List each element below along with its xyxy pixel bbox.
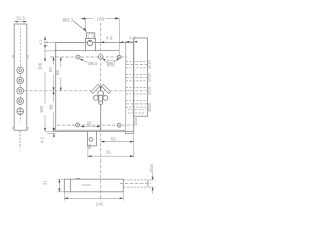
svg-text:106: 106 [37, 62, 42, 70]
31.5 arrows [14, 21, 17, 23]
svg-text:92: 92 [48, 67, 53, 73]
follower box [86, 38, 96, 51]
hole 1 [17, 67, 24, 74]
arrowheads [14, 17, 153, 199]
Ø18 arrows [152, 177, 154, 180]
dashed hidden lines [20, 23, 134, 160]
bolt 3 [126, 88, 149, 94]
bottom view faceplate line [69, 179, 71, 192]
4.0 arrows [126, 41, 129, 43]
63 arrows [101, 141, 105, 143]
dim 92 line [53, 57, 55, 131]
svg-text:85: 85 [55, 70, 60, 76]
left column arrows [44, 37, 46, 40]
tab hole dashed circle [88, 33, 93, 38]
leader 8.3 arrow [83, 28, 87, 32]
hole 3 [17, 88, 24, 95]
svg-text:180: 180 [39, 105, 44, 113]
follower heart hole [87, 40, 92, 45]
left dim column main line [44, 37, 56, 132]
4.2 bottom arrows [53, 128, 55, 131]
svg-text:Ø6.5: Ø6.5 [88, 61, 98, 66]
keyhole stem line [100, 105, 102, 132]
bottom view rect [64, 179, 123, 192]
faceplate circles [17, 67, 24, 115]
faceplate side nubs [13, 56, 28, 130]
Ø8 leader [107, 60, 114, 66]
dim 20 line [80, 126, 100, 128]
dim 100 line [81, 18, 119, 54]
svg-text:4.2: 4.2 [38, 39, 43, 45]
lock body outline [56, 42, 134, 131]
svg-text:100: 100 [96, 16, 104, 21]
dim 85 line [60, 57, 62, 91]
dim 91 line [88, 147, 134, 159]
bottom view bolt dashed [101, 160, 151, 201]
plate centerline [19, 28, 21, 123]
hole 2 [17, 77, 24, 84]
svg-text:20: 20 [86, 121, 92, 126]
dim 63 line [101, 135, 134, 158]
hole 8 center [98, 55, 102, 59]
deadbolts (dashed) [126, 61, 149, 113]
svg-text:Ø14: Ø14 [133, 117, 138, 126]
bolt 1 [126, 61, 149, 67]
svg-text:91: 91 [106, 150, 112, 155]
hole 6.5 right [117, 55, 121, 59]
Ø8.3 leader line [73, 21, 86, 31]
svg-text:Ø18: Ø18 [147, 103, 152, 112]
bolt 2 [126, 75, 149, 81]
hole 6.5 left [76, 55, 80, 59]
service latch [128, 110, 146, 113]
hole 5 hatched [17, 108, 24, 115]
leader to right hole [114, 59, 118, 62]
svg-text:4.2: 4.2 [39, 136, 44, 143]
bolt housing [134, 38, 148, 116]
bottom view bolt end cap [147, 180, 149, 187]
bottom tab [88, 131, 97, 146]
hole 4 [17, 98, 24, 105]
Ø6.5 leader [80, 59, 88, 63]
svg-text:Ø18: Ø18 [149, 164, 154, 173]
keyhole top notch [100, 87, 102, 91]
plate bottom strip [19, 131, 21, 146]
dim 4.0 lines [126, 41, 138, 43]
svg-text:Ø8.3: Ø8.3 [63, 18, 74, 24]
142 arrows [64, 197, 68, 199]
bottom view top lip [76, 177, 80, 179]
screw holes centerline [51, 56, 128, 58]
body bottom step [126, 131, 134, 133]
keyhole crown wing right [102, 84, 111, 93]
svg-text:4.9: 4.9 [106, 36, 113, 41]
svg-text:Ø18: Ø18 [146, 86, 151, 95]
bottom fixing holes [76, 123, 122, 127]
svg-text:Ø8: Ø8 [108, 61, 114, 66]
dim 142 [64, 192, 123, 200]
dim Ø18 bottom view [149, 173, 155, 194]
svg-text:63: 63 [111, 137, 117, 142]
svg-text:4.0: 4.0 [129, 36, 136, 41]
bottom fixing holes centerline [57, 124, 133, 126]
top tab [86, 33, 95, 39]
body inner lid line [54, 49, 119, 51]
dim 31 bottom view [58, 179, 65, 192]
svg-text:Ø18: Ø18 [146, 60, 151, 69]
svg-text:31: 31 [43, 180, 48, 185]
svg-text:86: 86 [49, 104, 54, 110]
20 arrows [80, 126, 84, 128]
faceplate [14, 24, 27, 130]
100 arrows [81, 18, 85, 20]
screw holes row [76, 55, 121, 60]
bolt 4 [126, 101, 149, 107]
keyhole crown wing left [91, 84, 100, 93]
svg-text:Ø5: Ø5 [88, 144, 92, 149]
svg-text:Ø18: Ø18 [146, 73, 151, 82]
keyhole [94, 91, 108, 105]
svg-text:2.4: 2.4 [44, 40, 49, 46]
inner plate edge [125, 42, 127, 130]
main vertical centerline [100, 23, 102, 160]
31 arrows [58, 179, 60, 182]
dim 4.2 bottom line [45, 128, 56, 138]
keyhole horizontal centerline [24, 90, 134, 92]
svg-text:31.5: 31.5 [16, 16, 25, 21]
bottom tab hole [89, 138, 93, 142]
svg-text:51003: 51003 [82, 183, 91, 187]
dim 4.9 line [101, 41, 124, 43]
4.9 arrows [101, 41, 105, 43]
dim 31.5 line [14, 21, 26, 23]
svg-text:142: 142 [96, 202, 104, 207]
91 arrows [88, 155, 92, 157]
